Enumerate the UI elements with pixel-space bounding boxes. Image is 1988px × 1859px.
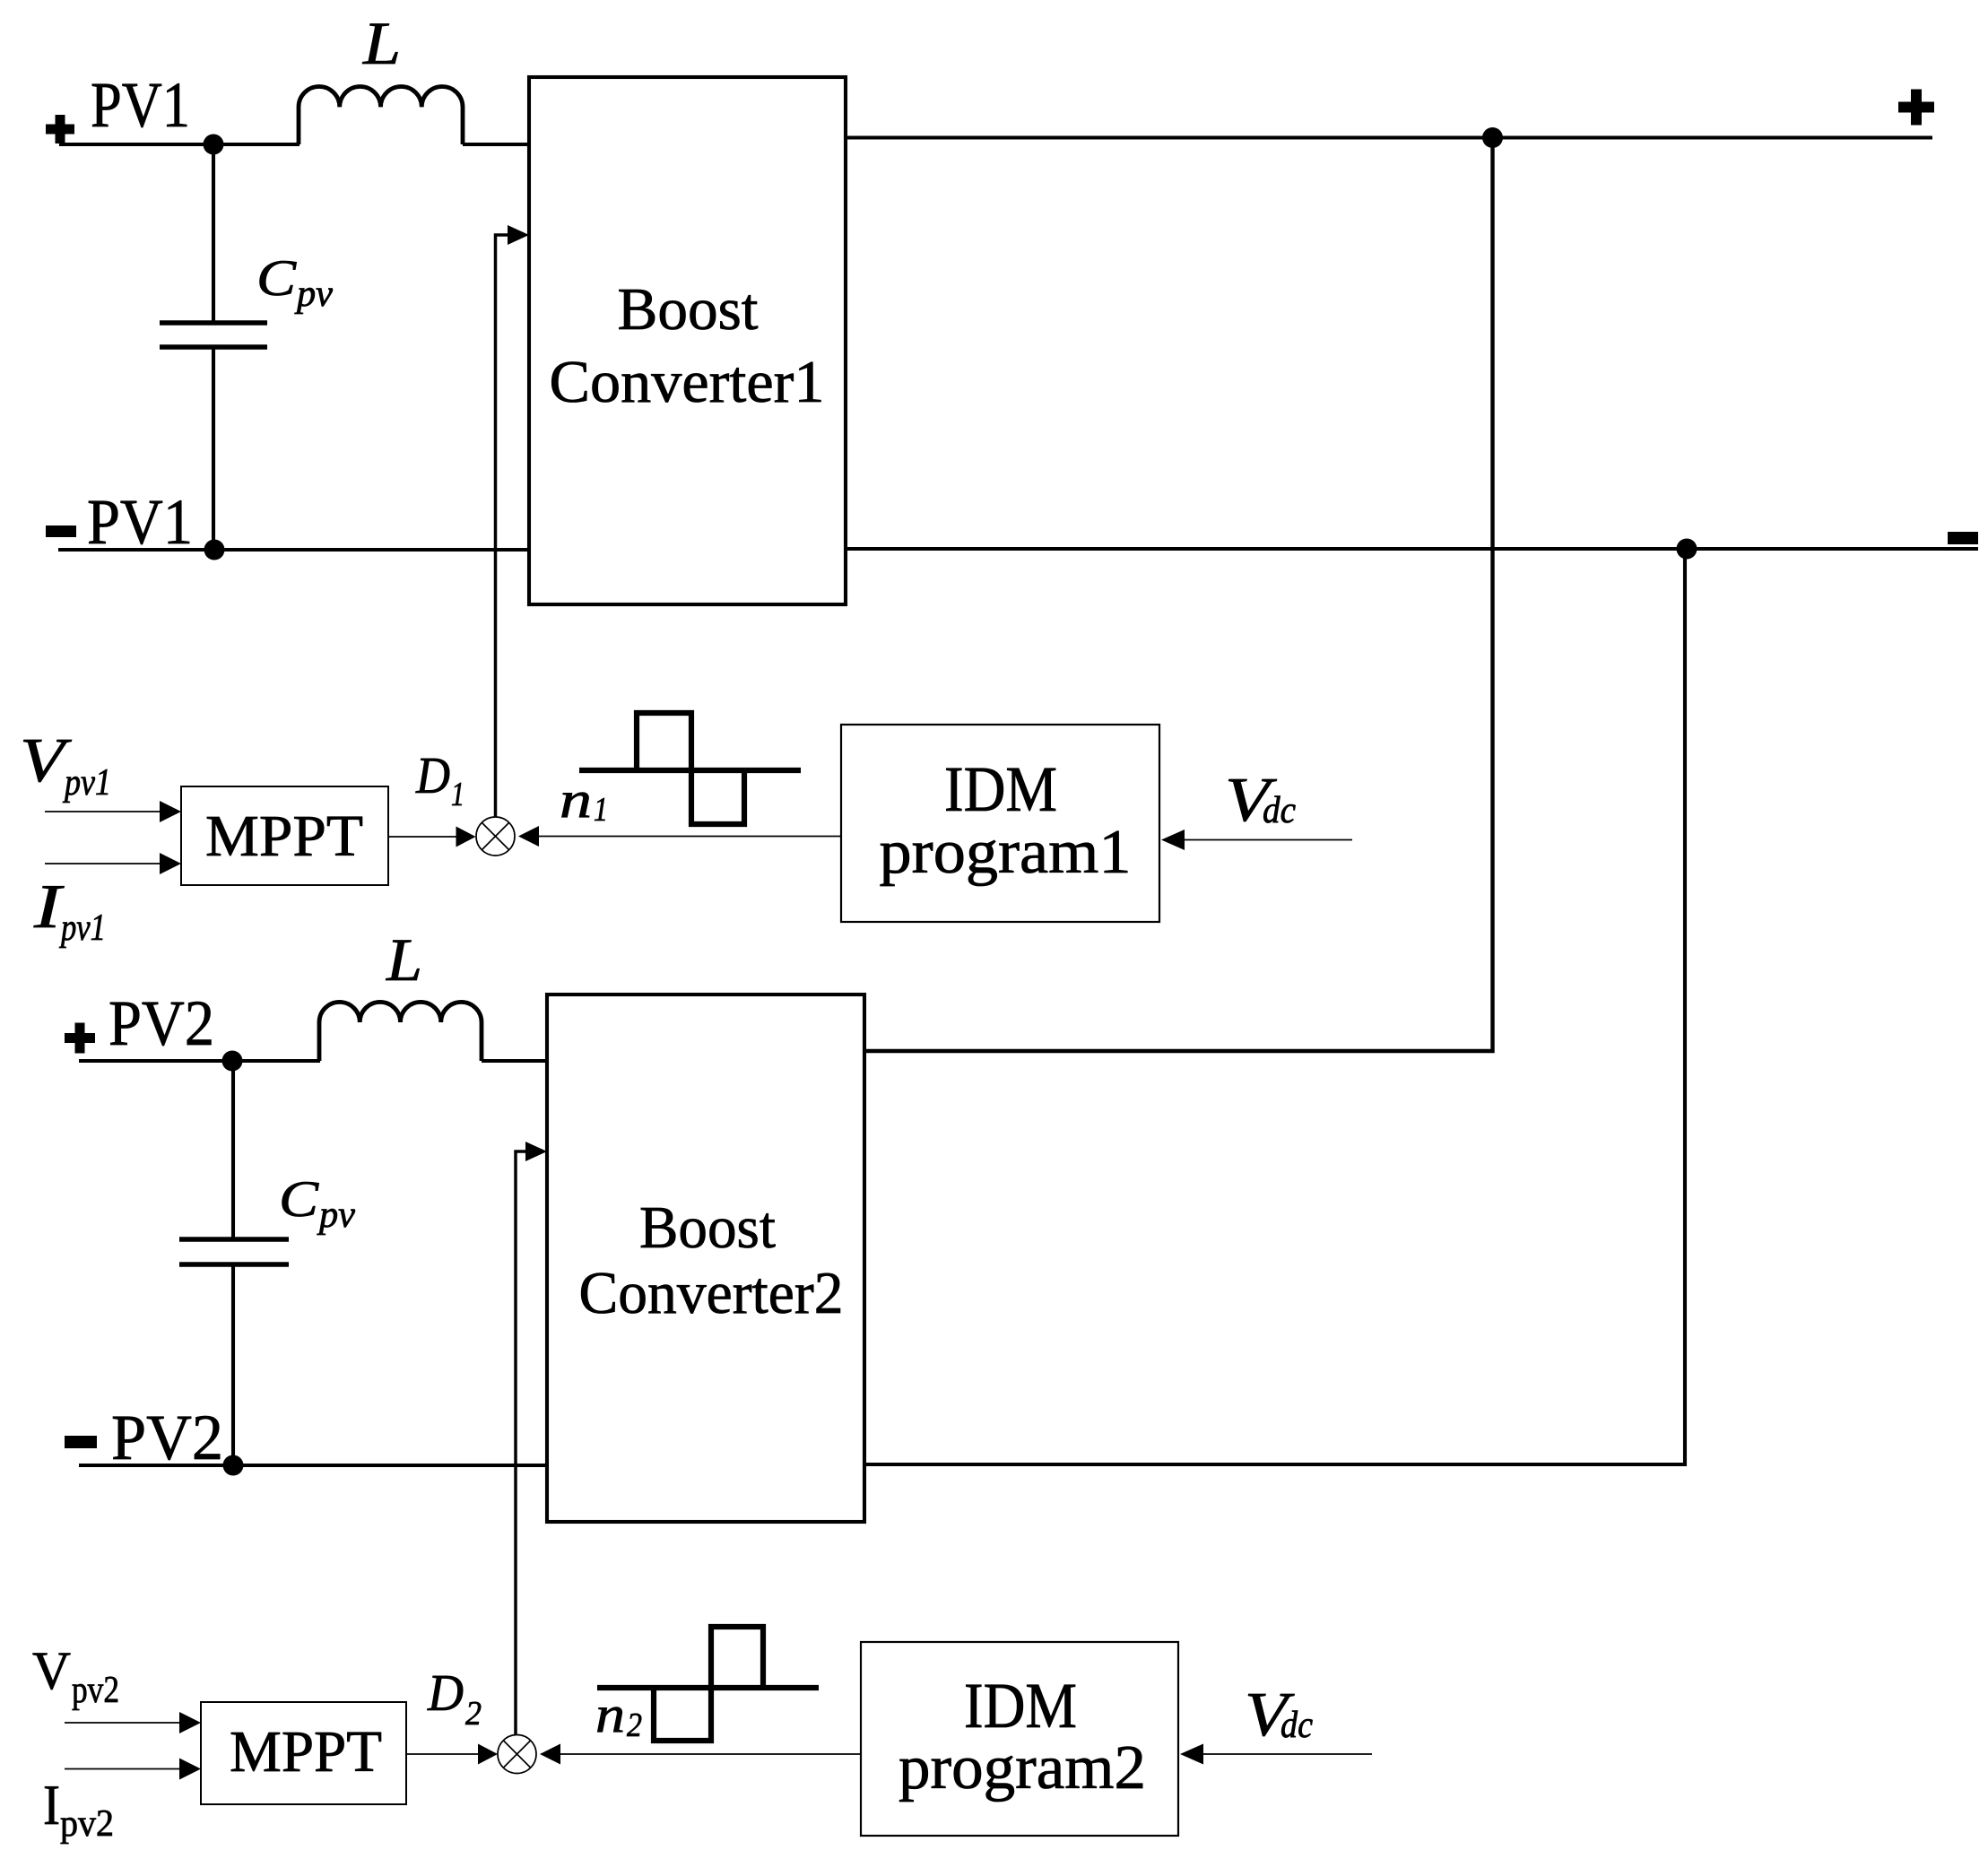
svg-text:n: n: [595, 1685, 625, 1743]
svg-text:I: I: [43, 1773, 60, 1837]
wire Vpv1 input arrow: [45, 801, 181, 822]
wire DC bus - (bottom): [846, 547, 1978, 551]
svg-text:pv2: pv2: [60, 1803, 114, 1845]
wire D1 from MPPT to multiplier: [388, 827, 476, 847]
PV1 plus terminal symbol: [46, 115, 74, 143]
svg-text:PV2: PV2: [109, 987, 214, 1059]
block MPPT (PV1): [181, 786, 388, 885]
label n2: [595, 1685, 642, 1744]
wire PV2+ to inductor: [79, 1059, 320, 1063]
label Ipv1: [33, 873, 106, 949]
svg-text:pv1: pv1: [62, 762, 111, 804]
block MPPT (PV2): [201, 1702, 406, 1804]
svg-text:MPPT: MPPT: [205, 804, 363, 869]
block IDM program1: [841, 725, 1159, 922]
wire inductor to Boost Converter2: [482, 1059, 547, 1063]
svg-text:2: 2: [627, 1707, 642, 1744]
svg-text:program2: program2: [899, 1733, 1146, 1803]
wire Boost Converter2 output+ to bus: [864, 143, 1493, 1051]
label Vpv1: [20, 726, 111, 804]
waveform n2 (square wave, negative pulse first): [597, 1627, 819, 1741]
value label Cpv (capacitor 2): [279, 1171, 355, 1236]
block Boost Converter2: [547, 995, 864, 1522]
svg-text:Boost: Boost: [618, 276, 759, 343]
node junction PV2- / Cpv: [223, 1455, 244, 1476]
svg-text:C: C: [279, 1171, 319, 1228]
svg-text:1: 1: [594, 791, 608, 829]
wire n1 from IDM program1 to multiplier: [518, 826, 841, 847]
svg-text:Converter1: Converter1: [550, 349, 825, 415]
wire n2 from IDM program2 to multiplier: [540, 1744, 861, 1765]
svg-text:IDM: IDM: [964, 1670, 1077, 1742]
waveform n1 (square wave, positive pulse first): [579, 713, 801, 824]
capacitor Cpv (PV2 branch): [179, 1061, 289, 1465]
svg-text:dc: dc: [1263, 790, 1296, 831]
wire Vdc into IDM program1: [1161, 830, 1352, 850]
block Boost Converter1: [529, 77, 846, 604]
svg-text:MPPT: MPPT: [230, 1719, 382, 1785]
svg-text:program1: program1: [880, 818, 1132, 887]
node junction PV1- / Cpv: [204, 540, 225, 560]
wire inductor to Boost Converter1: [463, 143, 529, 146]
wire Ipv2 input arrow: [65, 1759, 201, 1780]
svg-text:PV1: PV1: [87, 486, 193, 558]
svg-text:Converter2: Converter2: [579, 1260, 844, 1326]
svg-text:L: L: [362, 9, 401, 77]
wire D2 from MPPT to multiplier: [406, 1744, 498, 1765]
svg-text:PV2: PV2: [111, 1402, 223, 1473]
svg-text:dc: dc: [1280, 1705, 1313, 1746]
wire Vdc into IDM program2: [1180, 1744, 1372, 1765]
svg-text:PV1: PV1: [91, 69, 190, 141]
wire gate drive D2*n2 into Boost Converter2: [516, 1142, 547, 1737]
svg-text:C: C: [256, 250, 297, 307]
svg-text:D: D: [415, 746, 450, 804]
label D2: [427, 1664, 482, 1733]
label n1: [560, 770, 608, 829]
node junction bus+ / converter2 riser: [1482, 127, 1503, 148]
inductor L (PV1 branch): [299, 87, 463, 144]
svg-text:IDM: IDM: [944, 753, 1057, 825]
DC bus plus terminal symbol: [1898, 90, 1934, 126]
svg-text:pv1: pv1: [59, 908, 106, 949]
svg-text:2: 2: [465, 1695, 482, 1733]
wire PV1- to Boost Converter1: [58, 548, 529, 552]
svg-text:L: L: [386, 925, 422, 994]
svg-text:D: D: [427, 1664, 464, 1722]
svg-text:pv: pv: [294, 274, 333, 315]
label PV2 (bottom terminal): [111, 1402, 223, 1473]
label PV1 (top source): [91, 69, 190, 141]
node junction PV2+ / Cpv: [222, 1051, 243, 1072]
label Ipv2: [43, 1773, 114, 1845]
wire gate drive D1*n1 into Boost Converter1: [496, 225, 530, 821]
svg-text:n: n: [560, 770, 592, 829]
label PV1 (bottom terminal): [87, 486, 193, 558]
value label Cpv (capacitor 1): [256, 250, 333, 315]
svg-text:pv: pv: [317, 1194, 355, 1236]
block IDM program2: [861, 1642, 1178, 1836]
PV2 plus terminal symbol: [65, 1023, 95, 1054]
wire Vpv2 input arrow: [65, 1712, 201, 1733]
wire Boost Converter2 output- to bus: [864, 553, 1685, 1464]
value label L (inductor 1): [362, 9, 401, 77]
wire PV2- to Boost Converter2: [79, 1464, 547, 1467]
label Vdc (input to IDM program2): [1245, 1681, 1313, 1750]
svg-text:pv2: pv2: [72, 1670, 119, 1711]
label PV2 (top terminal): [109, 987, 214, 1059]
wire DC bus + (top): [846, 135, 1932, 139]
capacitor Cpv (PV1 branch): [160, 144, 267, 550]
DC bus minus terminal symbol: [1948, 532, 1978, 544]
svg-text:1: 1: [451, 776, 464, 813]
wire PV1+ to inductor: [59, 143, 300, 146]
PV1 minus terminal symbol: [46, 526, 76, 537]
PV2 minus terminal symbol: [65, 1436, 97, 1448]
label D1: [415, 746, 464, 813]
multiplier X2 (D2 x n2): [498, 1735, 536, 1774]
node junction bus- / converter2 riser: [1677, 539, 1697, 560]
value label L (inductor 2): [386, 925, 422, 994]
inductor L (PV2 branch): [319, 1002, 482, 1061]
svg-text:Boost: Boost: [639, 1194, 776, 1261]
node junction PV1+ / Cpv: [204, 135, 224, 155]
label Vdc (input to IDM program1): [1225, 766, 1296, 835]
svg-text:V: V: [32, 1641, 71, 1700]
label Vpv2: [32, 1641, 119, 1711]
multiplier X1 (D1 x n1): [476, 817, 515, 856]
wire Ipv1 input arrow: [45, 853, 181, 874]
